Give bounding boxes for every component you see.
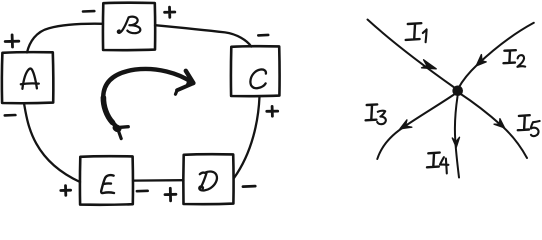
label I1	[406, 23, 427, 42]
current I4 wire with arrowhead	[452, 97, 459, 178]
loop direction arrow (clockwise)	[103, 69, 194, 139]
label I2	[504, 50, 526, 67]
current I1 wire with arrowhead	[368, 20, 456, 89]
label I3	[366, 104, 386, 124]
junction node	[452, 86, 463, 97]
polarity - at D right	[243, 185, 255, 188]
component B (box with designator)	[103, 3, 155, 51]
label I4	[427, 153, 448, 174]
current I3 wire with arrowhead	[377, 93, 457, 160]
component D (box with designator)	[183, 154, 233, 204]
wire B right to C top	[155, 25, 251, 46]
current I2 wire with arrowhead	[459, 23, 534, 88]
wire E right to D left	[133, 179, 184, 182]
polarity + at D left	[165, 188, 176, 201]
polarity + at C bottom	[267, 106, 278, 116]
component C (box with designator)	[231, 46, 280, 96]
wire A top to B left	[27, 24, 103, 53]
current I5 wire with arrowhead	[459, 93, 528, 159]
polarity - at C top	[258, 34, 268, 37]
component A (box with designator)	[2, 52, 53, 103]
polarity - at E right	[137, 190, 148, 193]
label I5	[518, 115, 540, 136]
polarity + at A top	[5, 35, 19, 47]
polarity + at B right	[165, 7, 175, 17]
wire A bottom to E left	[24, 103, 80, 182]
wire C bottom to D right	[234, 97, 260, 179]
component E (box with designator)	[80, 156, 133, 205]
polarity - at A bottom	[5, 114, 16, 117]
polarity + at E left	[61, 186, 71, 196]
polarity - at B left	[83, 10, 94, 13]
